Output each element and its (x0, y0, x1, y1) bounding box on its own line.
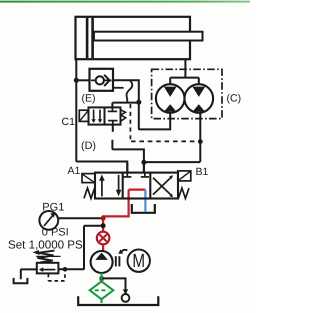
svg-text:PG1: PG1 (42, 201, 64, 213)
svg-text:Set 1,0000 PSI: Set 1,0000 PSI (8, 238, 86, 251)
svg-text:0 PSI: 0 PSI (42, 226, 69, 238)
svg-text:B1: B1 (196, 166, 209, 178)
svg-text:(E): (E) (82, 93, 96, 105)
svg-text:A1: A1 (68, 165, 81, 177)
svg-text:(C): (C) (227, 92, 242, 104)
svg-text:M: M (132, 251, 145, 272)
svg-text:C1: C1 (62, 116, 76, 128)
svg-text:(D): (D) (81, 140, 96, 152)
